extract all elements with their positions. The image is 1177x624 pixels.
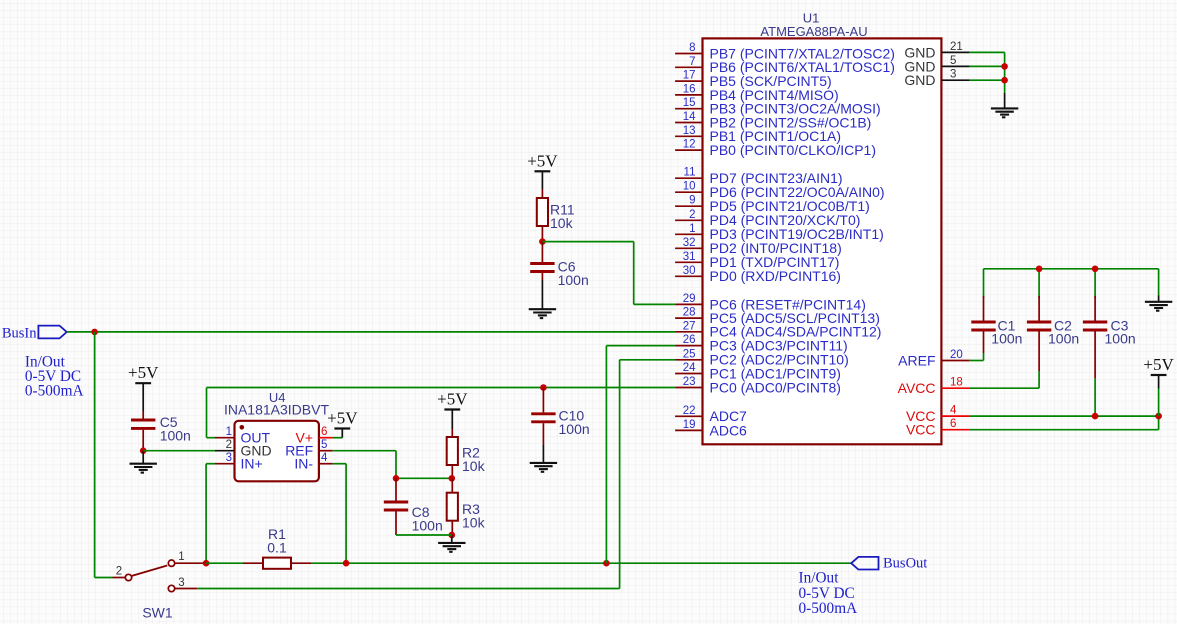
junction R3 bottom [449, 532, 456, 539]
svg-text:6: 6 [950, 418, 956, 430]
svg-text:16: 16 [683, 83, 696, 95]
U1 pin 5 GND [904, 55, 969, 74]
junction pin26 dropper [603, 560, 610, 567]
U1 pin 27 PC4 [675, 320, 881, 339]
svg-text:10: 10 [683, 181, 696, 193]
svg-text:100n: 100n [559, 421, 590, 437]
wire SW1 pin3 net [197, 360, 675, 589]
capacitor C10 [531, 388, 589, 463]
U1 pin 3 GND [904, 69, 969, 88]
U1 pin 24 PC1 [675, 362, 841, 381]
svg-text:0.1: 0.1 [267, 540, 287, 556]
U1 pin 23 PC0 [675, 376, 841, 395]
wire C3 top lead [1094, 296, 1096, 321]
svg-text:7: 7 [689, 56, 695, 68]
text In/Out left [25, 353, 84, 399]
wire pin5 to GND [970, 65, 1005, 67]
junction R2 R3 [449, 475, 456, 482]
junction C3 bottom VCC [1092, 413, 1099, 420]
capacitor C6 [530, 242, 589, 309]
wire C8 bottom [396, 534, 452, 536]
capacitor C8 [384, 478, 443, 535]
svg-text:+5V: +5V [527, 151, 558, 170]
svg-text:100n: 100n [558, 272, 589, 288]
svg-text:28: 28 [683, 307, 696, 319]
svg-text:GND: GND [904, 72, 935, 88]
svg-text:4: 4 [950, 405, 957, 417]
svg-text:22: 22 [683, 405, 696, 417]
svg-text:1: 1 [178, 551, 184, 563]
resistor R2 [447, 429, 486, 478]
svg-text:5: 5 [321, 439, 327, 451]
power +5V U4 [327, 409, 358, 438]
wire pin3 to GND [970, 79, 1005, 81]
wire VCC pin4 [970, 415, 1159, 417]
U1 pin 30 PD0 [675, 265, 841, 284]
svg-text:+5V: +5V [128, 363, 159, 382]
switch SW1 [113, 551, 207, 621]
capacitor C3 [1083, 318, 1136, 347]
wire R1 to BusOut [311, 562, 851, 564]
ground GND1 top right [991, 108, 1018, 117]
svg-text:1: 1 [689, 223, 695, 235]
junction C8 top [393, 475, 400, 482]
wire VCC pin6 [970, 416, 1159, 430]
svg-text:29: 29 [683, 293, 696, 305]
svg-text:10k: 10k [550, 215, 574, 231]
U1 pin 7 PB6 [675, 56, 895, 75]
junction BusIn [91, 329, 98, 336]
U4 pin 3 IN+ [215, 452, 263, 472]
wire C3 bottom [1094, 331, 1096, 416]
svg-text:PB0 (PCINT0/CLKO/ICP1): PB0 (PCINT0/CLKO/ICP1) [710, 142, 877, 158]
svg-text:3: 3 [226, 452, 232, 464]
U1 pin 32 PD2 [675, 237, 842, 256]
U1 pin 16 PB4 [675, 83, 839, 102]
U1 pin 14 PB2 [675, 111, 871, 130]
svg-text:+5V: +5V [1143, 355, 1174, 374]
U4 pin 5 REF [285, 439, 332, 459]
wire OUT net [207, 388, 676, 438]
svg-text:In/Out: In/Out [799, 569, 840, 586]
U1 pin 9 PD5 [675, 195, 870, 214]
ground GND2 right [1145, 296, 1172, 311]
U1 pin 31 PD1 [675, 251, 839, 270]
wire BusIn to pin27 [67, 331, 675, 333]
svg-text:0-500mA: 0-500mA [799, 600, 858, 617]
svg-text:20: 20 [950, 349, 963, 361]
svg-text:32: 32 [683, 237, 696, 249]
svg-text:100n: 100n [160, 428, 191, 444]
U1 pin 8 PB7 [675, 42, 895, 61]
svg-text:100n: 100n [412, 518, 443, 534]
svg-text:3: 3 [178, 577, 184, 589]
svg-text:1: 1 [226, 426, 232, 438]
svg-text:24: 24 [683, 362, 696, 374]
wire pin21 to GND [970, 52, 1005, 107]
junction R1 right [343, 560, 350, 567]
svg-text:100n: 100n [991, 331, 1022, 347]
svg-text:0-500mA: 0-500mA [25, 382, 84, 399]
svg-text:4: 4 [321, 452, 328, 464]
U1 pin 20 AREF [898, 349, 969, 368]
wire AREF to C1 [970, 331, 984, 360]
svg-text:IN+: IN+ [241, 456, 263, 472]
U1 pin 21 GND [904, 41, 969, 60]
power +5V C5 [128, 363, 159, 411]
wire RESET net to pin29 [542, 242, 675, 305]
resistor R1 [206, 526, 311, 569]
wire IN+ net [206, 464, 215, 564]
svg-text:AVCC: AVCC [898, 380, 936, 396]
U1 pin 12 PB0 [675, 139, 876, 158]
svg-text:100n: 100n [1048, 331, 1079, 347]
svg-text:2: 2 [116, 566, 122, 578]
junction pin5 GND [1001, 63, 1008, 70]
hierarchical label BusOut [851, 556, 927, 572]
capacitor C2 [1027, 318, 1079, 347]
U1 pin 19 ADC6 [675, 419, 747, 438]
ground GND4 C6 [529, 309, 556, 318]
junction pin3 GND [1001, 77, 1008, 84]
svg-text:ATMEGA88PA-AU: ATMEGA88PA-AU [760, 24, 867, 39]
svg-text:31: 31 [683, 251, 696, 263]
text In/Out right [799, 569, 858, 617]
U1 pin 26 PC3 [675, 334, 848, 353]
svg-text:2: 2 [226, 439, 232, 451]
U1 pin 11 PD7 [675, 167, 842, 186]
wire AREF top bus [984, 269, 1159, 298]
resistor R3 [447, 478, 486, 535]
ground GND3 C5 [130, 451, 157, 473]
U1 pin 25 PC2 [675, 348, 849, 367]
U1 pin 10 PD6 [675, 181, 884, 200]
svg-text:9: 9 [689, 195, 695, 207]
svg-text:15: 15 [683, 97, 696, 109]
U1 pin 29 PC6 [675, 293, 866, 312]
wire AVCC to C2 [970, 331, 1040, 388]
svg-text:100n: 100n [1105, 331, 1136, 347]
hierarchical label BusIn [2, 326, 67, 342]
junction C3 top [1092, 266, 1099, 273]
svg-text:2: 2 [689, 209, 695, 221]
svg-text:30: 30 [683, 265, 696, 277]
junction C2 top [1036, 266, 1043, 273]
svg-text:26: 26 [683, 334, 696, 346]
wire BusIn down to SW1 [95, 332, 113, 578]
svg-text:23: 23 [683, 376, 696, 388]
svg-text:21: 21 [950, 41, 963, 53]
svg-text:18: 18 [950, 377, 963, 389]
U4 pin 4 IN- [294, 452, 332, 472]
junction C10 top [540, 384, 547, 391]
wire C2 top lead [1038, 296, 1040, 321]
U1 pin 15 PB3 [675, 97, 881, 116]
svg-text:INA181A3IDBVT: INA181A3IDBVT [224, 402, 329, 418]
svg-text:25: 25 [683, 348, 696, 360]
svg-text:3: 3 [950, 69, 956, 81]
U4 pin 6 V+ [295, 426, 332, 446]
U1 pin 4 VCC [906, 405, 970, 424]
op-amp U1 body [703, 38, 942, 444]
svg-text:13: 13 [683, 125, 696, 137]
svg-text:ADC6: ADC6 [710, 422, 748, 438]
U4 pin 2 GND [215, 439, 272, 459]
U1 pin 2 PD4 [675, 209, 860, 228]
U1 pin 1 PD3 [675, 223, 884, 242]
svg-text:BusIn: BusIn [2, 326, 37, 342]
svg-text:10k: 10k [462, 515, 486, 531]
svg-text:11: 11 [684, 167, 696, 179]
svg-text:SW1: SW1 [142, 605, 173, 621]
capacitor C5 [131, 411, 191, 451]
U1 pin 22 ADC7 [675, 405, 747, 424]
svg-text:8: 8 [689, 42, 695, 54]
U1 pin 28 PC5 [675, 307, 880, 326]
svg-text:19: 19 [683, 419, 696, 431]
svg-text:12: 12 [683, 139, 696, 151]
svg-text:AREF: AREF [898, 352, 935, 368]
ground GND5 R3 [438, 535, 465, 552]
svg-text:+5V: +5V [437, 390, 468, 409]
junction R1 left [203, 560, 210, 567]
U1 pin 6 VCC [906, 418, 970, 437]
power +5V R2 [437, 390, 468, 430]
U4 pin 1 OUT [215, 426, 271, 446]
U1 pin 18 AVCC [898, 377, 970, 396]
svg-text:17: 17 [683, 70, 696, 82]
svg-text:PD0 (RXD/PCINT16): PD0 (RXD/PCINT16) [710, 268, 841, 284]
wire REF net [333, 451, 452, 479]
capacitor C1 [971, 318, 1022, 347]
power +5V right [1143, 355, 1174, 416]
wire C5 to U4 GND pin [143, 450, 215, 452]
svg-text:27: 27 [683, 320, 696, 332]
wire C1 top lead [983, 296, 985, 321]
U1 pin 13 PB1 [675, 125, 841, 144]
svg-text:BusOut: BusOut [883, 556, 927, 572]
svg-text:10k: 10k [462, 458, 486, 474]
svg-text:PC0 (ADC0/PCINT8): PC0 (ADC0/PCINT8) [710, 379, 841, 395]
U1 pin 17 PB5 [675, 70, 832, 89]
ground GND6 C10 [530, 463, 557, 472]
resistor R11 [537, 189, 575, 242]
svg-text:IN-: IN- [294, 456, 313, 472]
svg-text:5: 5 [950, 55, 956, 67]
wire IN- net [333, 464, 347, 564]
junction R11 C6 [539, 238, 546, 245]
junction +5V VCC [1155, 413, 1162, 420]
svg-text:6: 6 [321, 426, 327, 438]
power +5V R11 [527, 151, 558, 189]
wire pin26 net [606, 346, 675, 564]
op-amp U4 body [235, 421, 319, 482]
svg-text:VCC: VCC [906, 422, 936, 438]
junction C5 GND U4 [140, 447, 147, 454]
svg-text:14: 14 [683, 111, 696, 123]
svg-text:+5V: +5V [327, 409, 358, 428]
